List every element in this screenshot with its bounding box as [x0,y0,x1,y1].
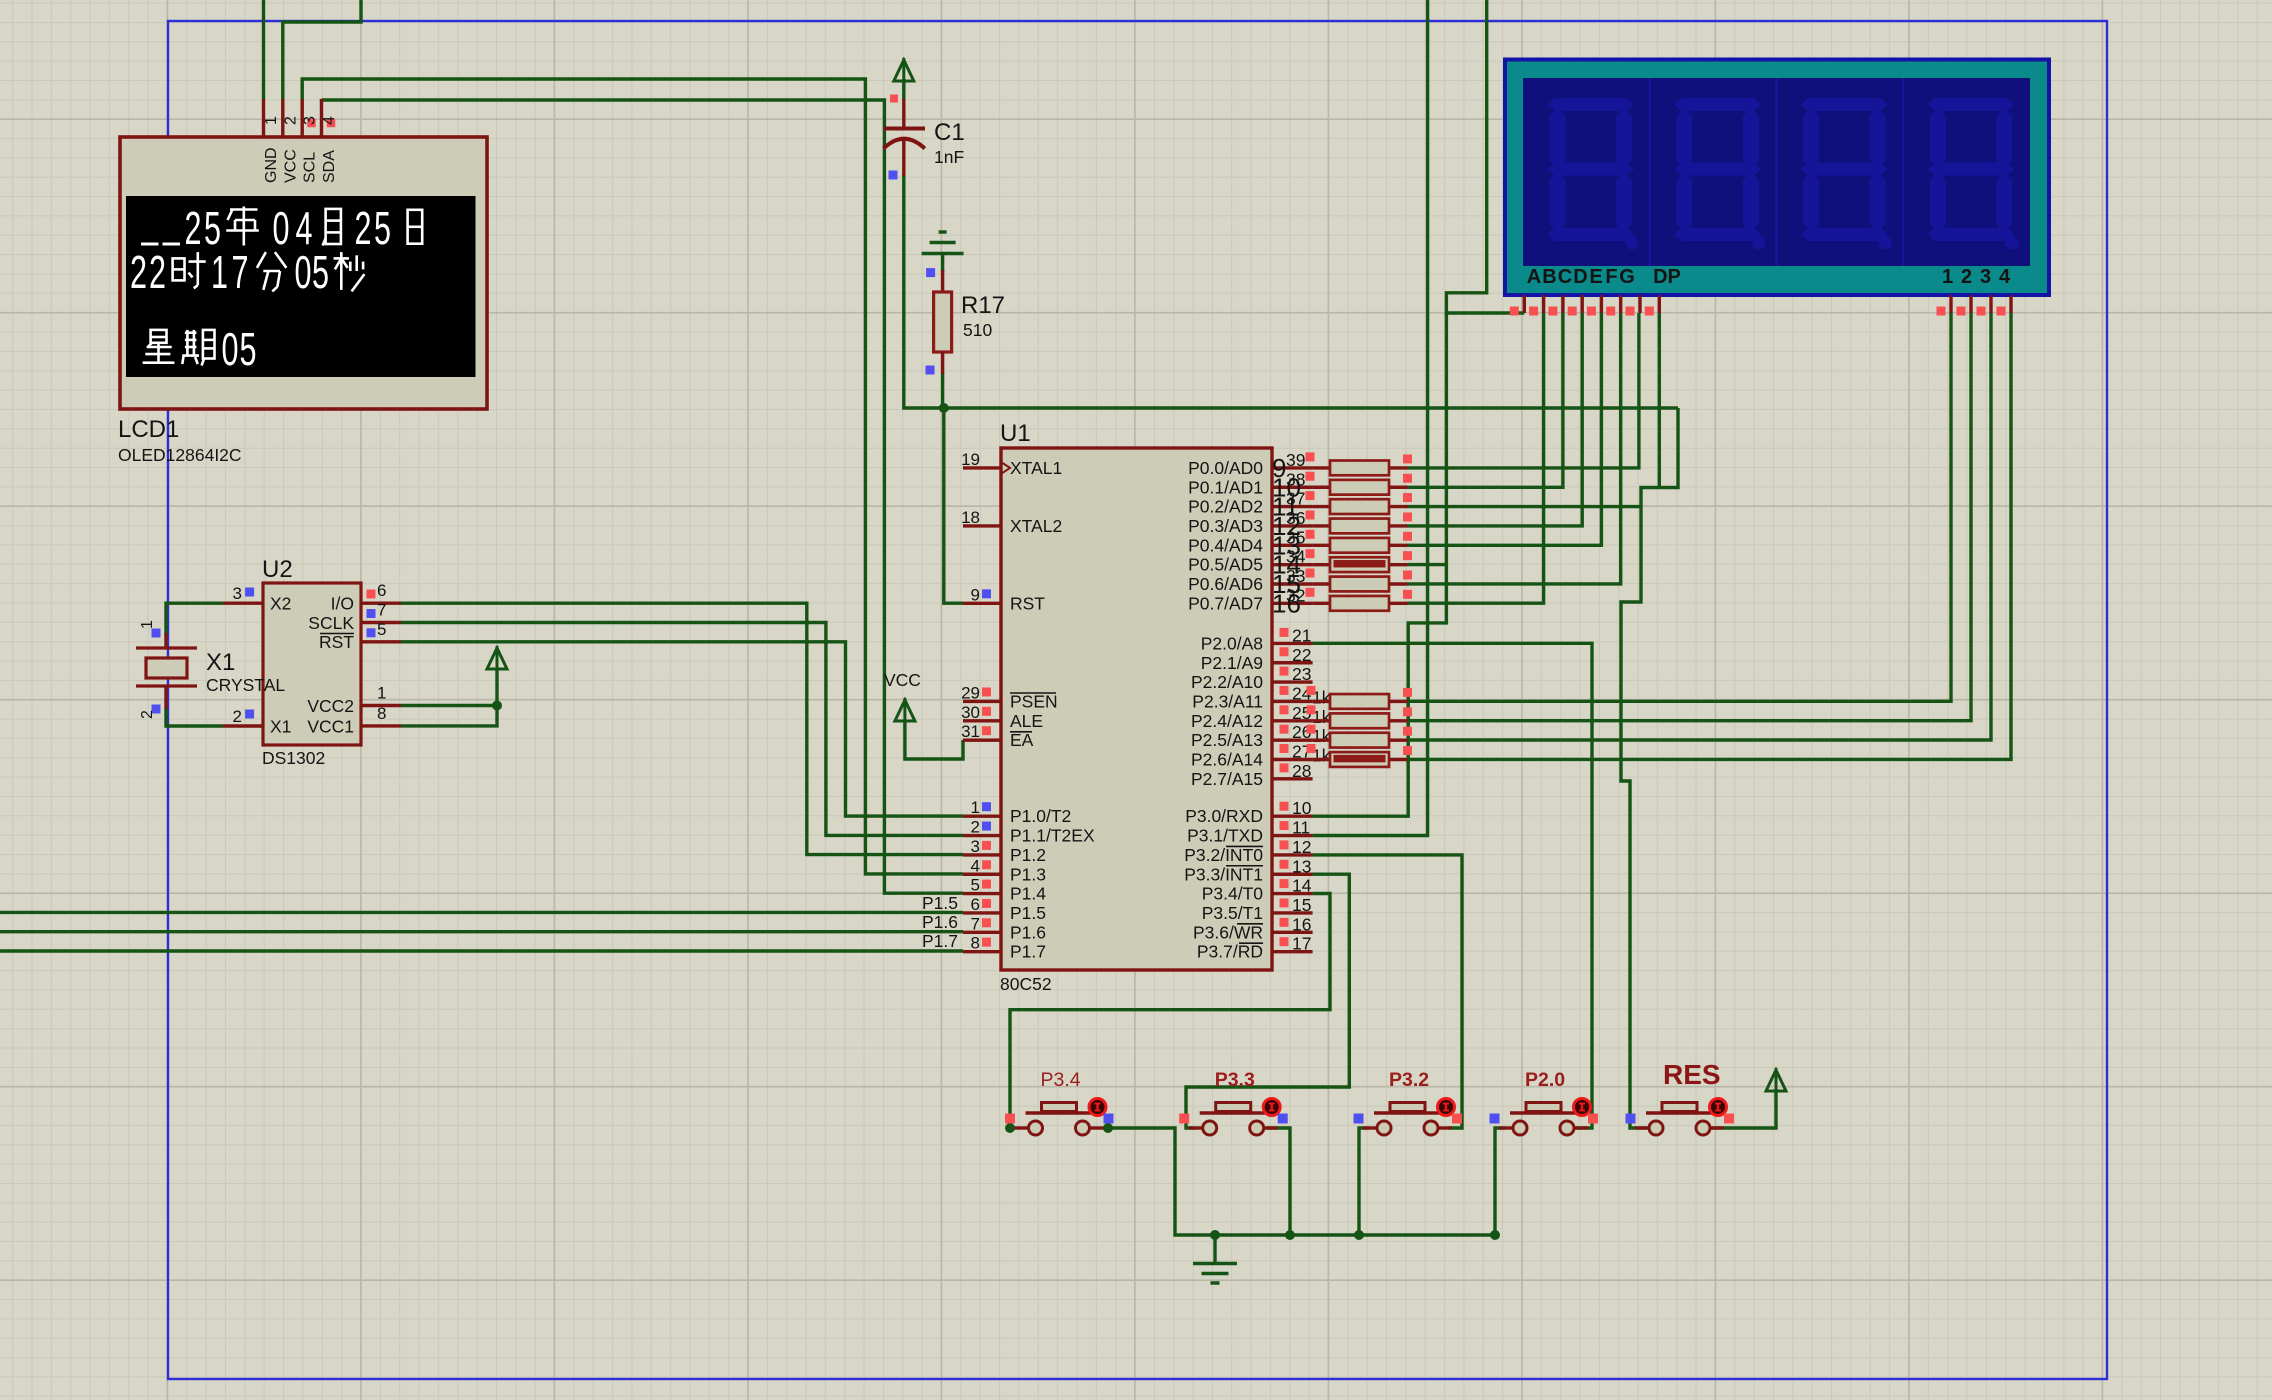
ground symbol [1193,1262,1237,1266]
U1 pin 34 P0.5/AD5 [1272,563,1313,566]
wire segment A net [1446,0,1524,313]
svg-text:P2.1/A9: P2.1/A9 [1201,653,1263,673]
wire RES button right to VCC [1712,1091,1776,1128]
wire segment F net P0.6 [1408,313,1621,584]
junction node bus b2 [1285,1230,1295,1240]
svg-text:4: 4 [1999,266,2011,288]
wire button P2.0 left down to bus [1495,1128,1505,1235]
svg-text:ALE: ALE [1010,711,1043,731]
wire C1 bottom to RST net [904,175,1678,408]
chip U1 80C52 body [1001,448,1272,970]
junction node bus ground [1210,1230,1220,1240]
svg-text:3: 3 [971,837,980,856]
svg-text:8: 8 [971,934,980,953]
U1 pin 10 P3.0/RXD [1272,815,1313,818]
wire net P1.5 from left edge [0,911,963,914]
svg-text:CRYSTAL: CRYSTAL [206,675,285,695]
svg-text:7: 7 [971,914,980,933]
wire P3.1/TXD to top edge [1313,0,1428,836]
svg-text:XTAL2: XTAL2 [1010,516,1062,536]
svg-text:P0.1/AD1: P0.1/AD1 [1188,477,1263,497]
U1 pin 17 P3.7/RD [1272,950,1313,953]
U1 pin 6 P1.5 [963,911,1001,914]
svg-text:4: 4 [321,116,338,125]
wire VCC to C1 top [902,79,905,99]
svg-text:D: D [1573,266,1587,288]
svg-text:P1.5: P1.5 [1010,903,1046,923]
7seg display outer frame [1505,60,2049,296]
svg-text:P3.2/INT0: P3.2/INT0 [1184,845,1263,865]
crystal X1 pin1 stub [164,633,167,648]
svg-text:DP: DP [1653,266,1681,288]
svg-text:P3.2: P3.2 [1389,1069,1429,1091]
wire R17 bottom lead [941,372,944,408]
U2 pin square 7 [367,609,376,618]
wire X1 pin2 to U2 X1 [166,708,223,726]
crystal X1 body [146,658,187,678]
svg-text:2: 2 [130,246,147,298]
junction node bus b3 [1354,1230,1364,1240]
U1 pin 8 P1.7 [963,950,1001,953]
svg-text:LCD1: LCD1 [118,416,179,443]
svg-text:4: 4 [971,856,980,875]
crystal X1 pin2 stub [164,686,167,709]
power symbol VCC above C1 [894,60,914,81]
wire RST net down to U1 RST pin [944,408,963,603]
svg-text:37: 37 [1286,489,1305,509]
wire U2 VCC2 to power [401,704,497,707]
svg-text:5: 5 [377,620,386,639]
svg-text:510: 510 [963,320,992,340]
svg-text:B: B [1542,266,1556,288]
U1 pin 39 P0.0/AD0 [1272,466,1313,469]
svg-text:1: 1 [211,246,228,298]
svg-text:P0.2/AD2: P0.2/AD2 [1188,497,1263,517]
svg-text:VCC: VCC [884,670,921,690]
U2 pin2 X1 stub [223,724,263,727]
U1 pin 26 P2.5/A13 [1272,738,1313,741]
power symbol VCC at EA [895,700,915,721]
svg-text:P1.5: P1.5 [922,893,958,913]
U1 pin 28 P2.7/A15 [1272,777,1313,780]
U2 pin6 I/O stub [361,602,401,605]
7seg pin stub x=1951 [1949,295,1952,313]
svg-text:P3.7/RD: P3.7/RD [1197,942,1263,962]
U1 pin 2 P1.1/T2EX [963,834,1001,837]
svg-text:6: 6 [377,581,386,600]
svg-text:16: 16 [1292,914,1311,934]
svg-text:1: 1 [139,620,156,629]
wire LCD SCL to U1 P1.3 [302,79,963,874]
U1 pin 30 ALE [963,719,1001,722]
LCD1 pin4 connection square [327,119,336,128]
svg-text:PSEN: PSEN [1010,691,1058,711]
LCD1 module body [120,137,487,409]
junction node VCC2/VCC1 [492,701,502,711]
resistor R17 bottom stub [941,352,944,374]
U2 pin square 2 [245,710,254,719]
push button P3.4 [1015,1126,1029,1129]
U1 pin 25 P2.4/A12 [1272,719,1313,722]
svg-text:P1.6: P1.6 [1010,922,1046,942]
wire segment G net P0.0 [1408,313,1639,468]
svg-text:P3.6/WR: P3.6/WR [1193,922,1263,942]
svg-text:P2.7/A15: P2.7/A15 [1191,769,1263,789]
wire U2 RST to U1 P1.0 [401,642,963,816]
svg-text:P3.5/T1: P3.5/T1 [1202,903,1263,923]
X1 pin square 2 [152,705,161,714]
svg-text:XTAL1: XTAL1 [1010,458,1062,478]
U2 pin square 5 [367,628,376,637]
LCD screen text line4 week [151,330,167,343]
svg-text:C1: C1 [934,119,965,146]
svg-text:8: 8 [377,704,386,723]
svg-text:P0.7/AD7: P0.7/AD7 [1188,593,1263,613]
wire LCD pin1 GND to top edge [262,0,265,99]
svg-text:VCC2: VCC2 [307,696,354,716]
svg-text:SCL: SCL [302,152,319,183]
wire U2 SCLK to U1 P1.1 [401,623,963,836]
svg-text:I/O: I/O [331,594,354,614]
wire RST net zigzag to RES button [1621,408,1678,1128]
svg-text:C: C [1558,266,1572,288]
7seg digit 1 [1548,98,1635,111]
capacitor C1 plates [884,127,926,131]
svg-text:P1.6: P1.6 [922,912,958,932]
svg-text:P1.7: P1.7 [1010,942,1046,962]
U1 pin 21 P2.0/A8 [1272,642,1313,645]
svg-text:1: 1 [971,798,980,817]
svg-text:15: 15 [1292,895,1311,915]
7seg digit 3 [1776,78,1778,266]
svg-text:17: 17 [1292,934,1311,954]
svg-text:P0.6/AD6: P0.6/AD6 [1188,574,1263,594]
svg-text:U2: U2 [262,556,293,583]
svg-text:RST: RST [1010,593,1045,613]
7seg pin stub x=2011 [2009,295,2012,313]
wire net P1.6 from left edge [0,930,963,933]
7seg pin stub x=1640 [1638,295,1641,313]
svg-text:2: 2 [139,710,156,719]
wire segment DP net [1658,313,1661,488]
wire net P1.7 from left edge [0,949,963,952]
svg-text:G: G [1619,266,1635,288]
svg-text:9: 9 [971,585,980,604]
svg-text:29: 29 [961,683,980,702]
LCD1 pin 2 stub [281,99,284,137]
svg-text:7: 7 [232,246,249,298]
wire digit2 net P2.4 [1408,313,1972,721]
svg-text:0: 0 [295,246,312,298]
crystal X1 top plate [136,646,197,649]
resistor respack R14 segment [1313,563,1330,566]
push button P3.2 [1363,1126,1377,1129]
resistor respack R9 segment [1313,466,1330,469]
svg-text:E: E [1589,266,1602,288]
svg-text:39: 39 [1286,450,1305,470]
C1 pin square top [890,95,898,103]
U1 pin 4 P1.3 [963,873,1001,876]
wire LCD SDA to U1 P1.4 [322,99,964,893]
LCD1 pin3 connection square [307,119,316,128]
svg-text:P2.4/A12: P2.4/A12 [1191,711,1263,731]
wire LCD pin2 VCC to top edge [283,0,361,99]
wire ground stem [1213,1235,1216,1263]
wire segment E net P0.4 [1408,313,1602,545]
wire digit1 net P2.3 [1408,313,1952,701]
7seg pin stub x=1543.6 [1542,295,1545,313]
junction node bus b4 [1490,1230,1500,1240]
U1 pin 32 P0.7/AD7 [1272,602,1313,605]
7seg pin stub x=1601.4 [1600,295,1603,313]
push button P3.3 [1189,1126,1203,1129]
svg-text:P3.0/RXD: P3.0/RXD [1185,806,1263,826]
svg-text:SCLK: SCLK [308,613,354,633]
wire X1 pin1 to U2 X2 [166,603,223,636]
svg-text:X1: X1 [270,717,291,737]
U1 pin 9 RST [963,602,1001,605]
svg-text:38: 38 [1286,469,1305,489]
svg-text:30: 30 [961,703,980,722]
svg-text:P1.2: P1.2 [1010,845,1046,865]
svg-text:13: 13 [1292,856,1311,876]
svg-text:P1.1/T2EX: P1.1/T2EX [1010,826,1095,846]
svg-text:2: 2 [971,818,980,837]
junction node RST/R17 [939,403,949,413]
svg-text:18: 18 [961,508,980,527]
svg-text:GND: GND [263,147,280,183]
LCD screen text line1 date [141,243,159,246]
resistor respack R10 segment [1313,486,1330,489]
U1 pin 36 P0.3/AD3 [1272,524,1313,527]
svg-text:P2.0/A8: P2.0/A8 [1201,633,1263,653]
svg-text:5: 5 [312,246,329,298]
LCD1 pin 3 stub [301,99,304,137]
U1 pin 3 P1.2 [963,853,1001,856]
svg-text:34: 34 [1286,547,1306,567]
7seg pin stub x=1620.7 [1619,295,1622,313]
U1 pin 1 P1.0/T2 [963,815,1001,818]
wire button P3.2 left down to bus [1359,1128,1369,1235]
chip U2 DS1302 body [263,583,361,745]
svg-text:P1.3: P1.3 [1010,864,1046,884]
resistor respack R12 segment [1313,524,1330,527]
U2 pin3 X2 stub [223,602,263,605]
wire button P3.3 right down to bus [1266,1128,1290,1235]
svg-text:P0.0/AD0: P0.0/AD0 [1188,458,1263,478]
svg-text:12: 12 [1292,837,1311,857]
junction node button P3.4 right [1103,1123,1113,1133]
resistor respack R15 segment [1313,582,1330,585]
svg-text:14: 14 [1292,876,1312,896]
svg-text:A: A [1527,266,1541,288]
svg-text:U1: U1 [1000,420,1031,447]
U1 pin 16 P3.6/WR [1272,931,1313,934]
svg-text:P1.0/T2: P1.0/T2 [1010,806,1071,826]
svg-text:80C52: 80C52 [1000,974,1052,994]
U1 pin 38 P0.1/AD1 [1272,486,1313,489]
7seg pin stub x=1659.3 [1658,295,1661,313]
svg-text:P0.3/AD3: P0.3/AD3 [1188,516,1263,536]
ground symbol flipped above R17 [939,230,947,234]
svg-text:5: 5 [240,323,257,375]
svg-text:3: 3 [233,584,242,603]
resistor respack R16 segment [1313,602,1330,605]
wire button P3.4 right to ground bus [1108,1128,1495,1235]
U1 XTAL1 clock mark [1001,462,1010,474]
R17 pin square top [926,268,935,277]
svg-text:P2.2/A10: P2.2/A10 [1191,672,1263,692]
svg-text:1nF: 1nF [934,147,964,167]
svg-text:P3.1/TXD: P3.1/TXD [1187,826,1263,846]
svg-text:P2.6/A14: P2.6/A14 [1191,750,1263,770]
svg-text:VCC: VCC [282,149,299,183]
C1 pin square bottom [889,171,898,180]
LCD1 pin 4 stub [320,99,323,137]
svg-text:5: 5 [971,876,980,895]
svg-text:1: 1 [377,684,386,703]
svg-text:P3.3: P3.3 [1215,1069,1255,1091]
U1 pin 29 PSEN [963,700,1001,703]
svg-text:28: 28 [1292,761,1311,781]
7seg pin stub x=1991 [1989,295,1992,313]
svg-text:P3.4: P3.4 [1041,1069,1081,1091]
U1 pin 27 P2.6/A14 [1272,758,1313,761]
U1 pin 37 P0.2/AD2 [1272,505,1313,508]
svg-text:2: 2 [355,202,372,254]
U2 pin5 RST stub [361,640,401,643]
wire segment A net to P3.0 [1313,313,1447,816]
resistor respack R11 segment [1313,505,1330,508]
svg-text:X2: X2 [270,594,291,614]
svg-text:1: 1 [263,116,280,125]
U2 pin square 3 [245,588,254,597]
svg-text:2: 2 [185,202,202,254]
wire digit4 net P2.6 [1408,313,2012,759]
svg-text:R17: R17 [961,292,1005,319]
svg-text:36: 36 [1286,508,1305,528]
resistor R17 body [934,292,952,352]
svg-text:3: 3 [1980,266,1991,288]
U1 pin 22 P2.1/A9 [1272,661,1313,664]
svg-text:2: 2 [1961,266,1972,288]
svg-text:33: 33 [1286,566,1305,586]
svg-text:19: 19 [961,450,980,469]
power symbol VCC at RES [1766,1070,1786,1091]
wire P2.0/A8 to button P2.0 [1313,643,1592,1128]
svg-text:EA: EA [1010,730,1034,750]
svg-text:OLED12864I2C: OLED12864I2C [118,445,242,465]
wire segment C net P0.1 [1408,313,1563,487]
svg-text:RES: RES [1663,1059,1721,1090]
svg-text:F: F [1605,266,1617,288]
resistor R17 top stub [941,270,944,292]
7seg display inner panel [1523,78,2030,266]
junction node button P3.4 left [1005,1123,1015,1133]
wire segment D net P0.3 [1408,313,1583,526]
svg-text:P0.4/AD4: P0.4/AD4 [1188,535,1263,555]
wire P3.4/T0 to button P3.4 [1010,894,1330,1129]
U1 pin 18 XTAL2 [963,524,1001,527]
svg-text:2: 2 [282,116,299,125]
U1 pin 11 P3.1/TXD [1272,834,1313,837]
push button RES [1635,1126,1649,1129]
U2 pin8 VCC1 stub [361,724,401,727]
LCD1 pin 1 stub [262,99,265,137]
wire net P0.2 [1408,505,1642,508]
svg-text:11: 11 [1292,818,1310,838]
svg-text:2: 2 [149,246,166,298]
U1 pin 12 P3.2/INT0 [1272,853,1313,856]
svg-text:VCC1: VCC1 [307,717,354,737]
U1 pin 7 P1.6 [963,931,1001,934]
U1 pin 35 P0.4/AD4 [1272,544,1313,547]
U1 pin 5 P1.4 [963,892,1001,895]
wire segment B net P0.7 [1408,313,1544,603]
U1 pin 14 P3.4/T0 [1272,892,1313,895]
U2 pin square 6 [367,590,376,599]
U1 pin 24 P2.3/A11 [1272,700,1313,703]
svg-text:23: 23 [1292,664,1311,684]
wire U1 EA to VCC [905,721,963,759]
7seg pin stub x=1971 [1969,295,1972,313]
svg-text:3: 3 [302,116,319,125]
svg-text:P2.3/A11: P2.3/A11 [1192,691,1263,711]
svg-text:2: 2 [233,707,242,726]
wire net P0.5 [1408,563,1447,566]
svg-text:32: 32 [1286,585,1305,605]
svg-text:P2.5/A13: P2.5/A13 [1191,730,1263,750]
svg-text:21: 21 [1292,625,1311,645]
U1 pin 13 P3.3/INT1 [1272,873,1313,876]
7seg pin stub x=1582.2 [1580,295,1583,313]
wire digit3 net P2.5 [1408,313,1992,740]
svg-text:10: 10 [1292,798,1312,818]
capacitor C1 bottom stub [902,137,905,176]
svg-text:RST: RST [319,632,354,652]
U2 pin7 SCLK stub [361,621,401,624]
wire P3.2/INT0 to button P3.2 [1313,855,1462,1128]
wire U2 VCC1 up to power junction [401,668,497,726]
svg-text:X1: X1 [206,649,235,676]
svg-text:P3.3/INT1: P3.3/INT1 [1184,864,1263,884]
svg-text:P2.0: P2.0 [1525,1069,1565,1091]
svg-text:SDA: SDA [321,150,338,183]
svg-text:0: 0 [273,202,290,254]
R17 pin square bottom [926,366,935,375]
U2 pin1 VCC2 stub [361,704,401,707]
U1 pin 15 P3.5/T1 [1272,911,1313,914]
7seg digit 2 [1649,78,1651,266]
resistor respack R13 segment [1313,544,1330,547]
U1 pin 19 XTAL1 [963,466,1001,469]
svg-text:5: 5 [374,202,391,254]
svg-text:P1.7: P1.7 [922,931,958,951]
U1 pin 31 EA [963,738,1001,741]
7seg pin stub x=1524.3 [1523,295,1526,313]
svg-text:P0.5/AD5: P0.5/AD5 [1188,555,1263,575]
capacitor C1 top stub [902,99,905,127]
U1 pin 23 P2.2/A10 [1272,680,1313,683]
svg-text:P1.4: P1.4 [1010,884,1046,904]
svg-text:6: 6 [971,895,980,914]
svg-text:0: 0 [222,323,239,375]
7seg pin stub x=1562.9 [1561,295,1564,313]
svg-text:35: 35 [1286,527,1305,547]
wire U2 I/O to U1 P1.2 [401,603,963,854]
svg-text:DS1302: DS1302 [262,748,325,768]
svg-text:31: 31 [961,722,980,741]
